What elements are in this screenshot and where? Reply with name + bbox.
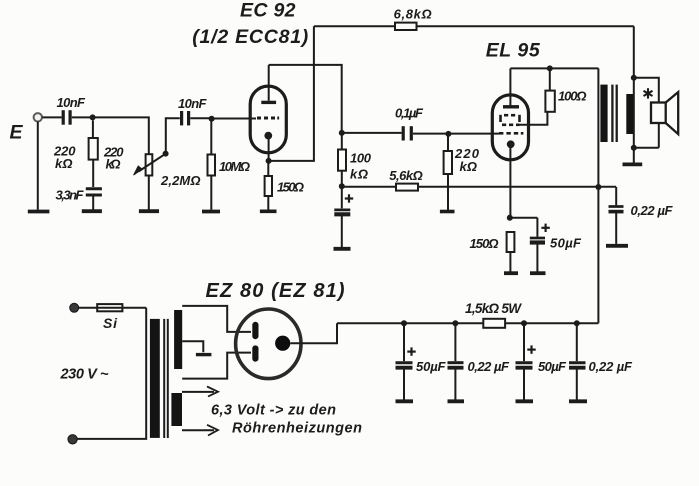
- EL95 anode lead: [509, 68, 511, 106]
- wire 150 to ground: [267, 196, 269, 210]
- capacitor C10 50uF plus sign: [527, 345, 535, 353]
- wire input to C1: [42, 116, 61, 118]
- wire screen resistor to plate node: [549, 68, 551, 90]
- svg-text:50µF: 50µF: [416, 359, 447, 374]
- wire C1 to node A: [72, 116, 93, 118]
- svg-text:kΩ: kΩ: [350, 167, 368, 182]
- power transformer core: [164, 319, 168, 438]
- EZ80 anode 2: [252, 345, 258, 361]
- output transformer T1 primary winding: [600, 85, 607, 142]
- wire wiper up to C3: [166, 118, 180, 153]
- node wiper junction: [163, 151, 169, 157]
- wire R to C2: [92, 160, 94, 187]
- svg-text:EZ 80 (EZ 81): EZ 80 (EZ 81): [206, 280, 345, 302]
- resistor R 150 (EC92 cathode): [267, 162, 269, 176]
- svg-text:150Ω: 150Ω: [470, 236, 499, 251]
- capacitor C2 3,3nF: [86, 189, 102, 195]
- wire node A to potentiometer: [93, 117, 149, 154]
- input terminal E: [34, 113, 42, 121]
- node C junction: [339, 130, 345, 136]
- secondary bottom wire: [634, 147, 659, 149]
- EL95 plate wire: [510, 67, 598, 69]
- node secondary top: [631, 75, 637, 81]
- ground (pot): [139, 209, 159, 213]
- svg-text:10nF: 10nF: [178, 96, 208, 111]
- ground (C4): [334, 247, 351, 251]
- svg-text:0,22 µF: 0,22 µF: [589, 359, 634, 374]
- power transformer heater winding: [171, 393, 182, 426]
- heater arrow 1: [182, 391, 214, 393]
- node secondary bottom: [631, 145, 637, 151]
- output transformer core: [612, 85, 616, 142]
- secondary wire alongside winding: [633, 26, 635, 162]
- svg-text:150Ω: 150Ω: [277, 179, 304, 194]
- svg-text:1,5kΩ 5W: 1,5kΩ 5W: [465, 301, 522, 316]
- node rail C10: [521, 320, 527, 326]
- ground (C2): [82, 209, 102, 213]
- svg-text:100Ω: 100Ω: [558, 88, 587, 103]
- tube EL95 V2 envelope: [492, 95, 528, 160]
- svg-text:kΩ: kΩ: [55, 156, 73, 171]
- HV bottom lead to anode 2: [182, 353, 251, 379]
- ground (center tap): [196, 353, 212, 356]
- wire 100k to node D: [341, 171, 343, 187]
- EC92 grid dashes: [257, 117, 279, 120]
- ground (C6): [606, 244, 628, 248]
- wire B+ vertical (OT primary): [597, 68, 599, 323]
- svg-text:2,2MΩ: 2,2MΩ: [160, 173, 201, 188]
- node rail C8: [401, 320, 407, 326]
- svg-text:3,3nF: 3,3nF: [56, 188, 85, 203]
- feedback top wire: [314, 25, 634, 27]
- potentiometer P 2,2M: [146, 154, 153, 175]
- capacitor C7 50uF (cathode bypass): [536, 218, 538, 237]
- wire cathode to C7: [510, 217, 538, 219]
- node D junction: [339, 183, 345, 189]
- capacitor C8 50uF: [403, 323, 405, 361]
- wire node C to C5: [342, 132, 402, 134]
- svg-text:kΩ: kΩ: [106, 157, 121, 172]
- wire 220k to ground: [447, 174, 449, 210]
- heater arrow 2: [182, 429, 214, 431]
- wire C3 to node B: [190, 117, 211, 119]
- wire 10M to ground: [210, 176, 212, 210]
- node A junction: [90, 114, 96, 120]
- HV center tap: [182, 341, 203, 352]
- ground (C9): [448, 399, 465, 403]
- capacitor C4 50uF (decoupling): [341, 187, 343, 208]
- svg-text:EC 92: EC 92: [240, 0, 296, 22]
- capacitor C6 0,22uF (top right): [615, 187, 617, 205]
- pot wiper arrow: [139, 154, 165, 171]
- ground (10M): [202, 210, 220, 214]
- node rail C11: [574, 320, 580, 326]
- node cathode junction: [266, 158, 272, 164]
- ground (150 EC92): [260, 210, 277, 214]
- svg-text:10MΩ: 10MΩ: [219, 159, 250, 174]
- capacitor C5 0,1uF: [403, 126, 411, 140]
- power transformer HV winding: [174, 310, 182, 369]
- ground (input): [28, 210, 50, 214]
- speaker asterisk: [644, 88, 653, 98]
- wire node B to EC92 grid: [212, 118, 256, 120]
- svg-text:0,22 µF: 0,22 µF: [468, 359, 511, 374]
- wire terminal to fuse: [79, 307, 147, 309]
- svg-text:(1/2 ECC81): (1/2 ECC81): [192, 26, 308, 48]
- svg-text:E: E: [10, 122, 24, 144]
- B+ rail wire (decoupled): [342, 186, 616, 188]
- node screen junction: [547, 65, 553, 71]
- resistor R 220k (EL95 grid leak): [447, 135, 449, 151]
- ground (150 EL95): [504, 271, 518, 275]
- wire pot to ground: [148, 176, 150, 210]
- svg-text:6,8kΩ: 6,8kΩ: [394, 6, 432, 21]
- node B junction: [209, 116, 215, 122]
- EL95 g1 row: [499, 132, 523, 135]
- output transformer secondary winding: [626, 94, 633, 134]
- EZ80 cathode dot: [275, 336, 290, 351]
- capacitor C4 50uF plus sign: [345, 194, 353, 202]
- svg-text:100: 100: [350, 151, 372, 166]
- wire input down: [37, 122, 39, 210]
- B+ supply rail: [337, 322, 598, 324]
- node B+ primary bottom: [595, 184, 601, 190]
- wire node E to EL95 grid: [448, 133, 499, 135]
- node E junction: [445, 131, 451, 137]
- ground (C7): [530, 271, 546, 275]
- svg-text:kΩ: kΩ: [460, 159, 478, 174]
- resistor R 10M: [210, 121, 212, 155]
- node rail C9: [452, 320, 458, 326]
- ground (C10): [516, 399, 534, 403]
- ground (220k): [440, 210, 455, 214]
- svg-text:230 V ~: 230 V ~: [60, 366, 110, 382]
- svg-text:0,1µF: 0,1µF: [395, 105, 424, 120]
- wire EC92 anode to node C: [269, 65, 342, 133]
- wire fuse to primary: [77, 308, 146, 439]
- ground (C8): [396, 399, 414, 403]
- svg-text:EL 95: EL 95: [486, 40, 541, 62]
- EL95 cathode dot: [507, 140, 515, 148]
- tube EZ80 V3 envelope: [236, 309, 301, 379]
- EC92 anode bar: [261, 101, 276, 104]
- svg-text:5,6kΩ: 5,6kΩ: [389, 168, 423, 183]
- power transformer T2 primary winding: [150, 319, 160, 438]
- EL95 cathode lead: [509, 148, 511, 218]
- svg-text:50µF: 50µF: [550, 235, 582, 250]
- EZ80 anode 1: [252, 322, 258, 339]
- EL95 g3 row: [501, 115, 520, 122]
- EC92 cathode lead: [268, 139, 270, 161]
- resistor R 5,6k: [396, 184, 418, 191]
- svg-text:0,22 µF: 0,22 µF: [631, 203, 674, 218]
- resistor R 1,5k 5W: [483, 319, 505, 328]
- capacitor C7 50uF plus sign: [541, 224, 549, 232]
- wire C5 to node E: [413, 133, 448, 135]
- resistor R 100 (screen): [545, 91, 554, 112]
- tube EC92 V1 envelope: [250, 86, 286, 153]
- EL95 g2 row: [502, 124, 520, 127]
- resistor R 150 (EL95 cathode): [507, 232, 515, 252]
- resistor R 100k: [341, 135, 343, 150]
- resistor R 220k (grid): [92, 120, 94, 138]
- resistor R 6,8k: [395, 23, 417, 30]
- HV top lead to anode 1: [182, 306, 251, 332]
- EC92 cathode dot: [264, 132, 272, 140]
- node EL95 cathode junction: [507, 215, 513, 221]
- EZ80 cathode wire to B+ rail: [290, 323, 337, 343]
- EC92 anode lead: [268, 65, 270, 101]
- speaker LS: [651, 103, 666, 124]
- svg-text:Si: Si: [103, 315, 118, 331]
- capacitor C3 10nF: [182, 111, 189, 125]
- svg-text:6,3 Volt -> zu den: 6,3 Volt -> zu den: [211, 403, 336, 419]
- svg-text:50µF: 50µF: [538, 359, 567, 374]
- ground (C11): [569, 399, 587, 403]
- EC92 cathode wire to feedback: [269, 26, 314, 161]
- EL95 g2 tap wire: [518, 112, 547, 125]
- EL95 anode bar: [503, 105, 519, 108]
- speaker bottom lead: [658, 123, 660, 148]
- capacitor C10 50uF: [523, 323, 525, 361]
- svg-text:10nF: 10nF: [57, 95, 87, 110]
- wire C2 to ground: [92, 197, 94, 210]
- wire secondary top to speaker: [634, 78, 659, 103]
- capacitor C11 0,22uF: [576, 323, 578, 361]
- mains terminal bottom: [68, 435, 77, 444]
- ground (secondary): [623, 162, 643, 166]
- capacitor C1 10nF: [63, 110, 70, 125]
- svg-text:Röhrenheizungen: Röhrenheizungen: [232, 421, 362, 437]
- capacitor C9 0,22uF: [454, 323, 456, 361]
- capacitor C8 50uF plus sign: [407, 347, 415, 355]
- fuse Si: [97, 304, 122, 311]
- mains terminal top: [70, 303, 79, 312]
